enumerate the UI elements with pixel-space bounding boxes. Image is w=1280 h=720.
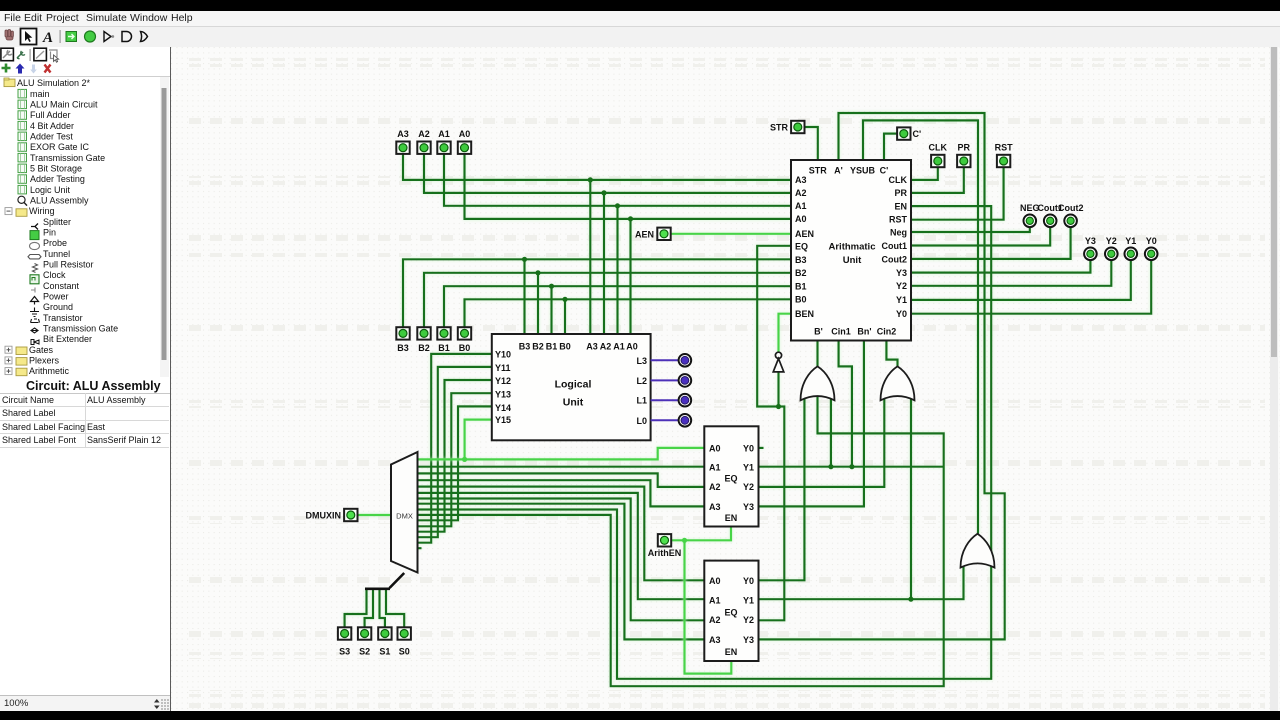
svg-text:A': A' — [834, 166, 843, 176]
pin Y0 (output) — [1145, 236, 1158, 260]
svg-text:YSUB: YSUB — [850, 166, 876, 176]
wire ArithEN branch to box2 EN (high) — [685, 540, 732, 673]
wire B3 branch down to Logical Unit — [523, 259, 525, 334]
pin NEG (output) — [1020, 203, 1040, 227]
svg-text:B2: B2 — [795, 268, 807, 278]
node A3/LU junction — [588, 177, 593, 182]
svg-text:B2: B2 — [418, 343, 430, 353]
svg-text:EN: EN — [725, 513, 738, 523]
wire Y0 row to pin — [911, 260, 1151, 313]
node ArithEN junction (high) — [682, 538, 687, 543]
svg-text:Y2: Y2 — [896, 281, 907, 291]
wire A3 pin to unit — [403, 154, 791, 180]
svg-text:Y1: Y1 — [1125, 236, 1136, 246]
pin ArithEN — [648, 534, 682, 558]
wire splitter leg S3 — [345, 589, 367, 627]
hand tool — [5, 30, 13, 41]
svg-text:Y13: Y13 — [495, 390, 511, 400]
svg-text:Y2: Y2 — [743, 615, 754, 625]
svg-text:Power: Power — [43, 292, 69, 302]
svg-text:A2: A2 — [709, 615, 721, 625]
top black bar — [0, 0, 1280, 11]
toolbar row 1 — [0, 26, 1280, 49]
wire G1 middle input net to DMX out9 via bottom run — [418, 394, 944, 686]
svg-text:Y3: Y3 — [1085, 236, 1096, 246]
select arrow (active, boxed) — [21, 29, 37, 45]
node B1/LU junction — [549, 284, 554, 289]
wire G2 right input to box2 Y1 row — [910, 398, 912, 600]
svg-text:4 Bit Adder: 4 Bit Adder — [30, 121, 74, 131]
status bar — [0, 695, 170, 712]
svg-text:EQ: EQ — [795, 242, 808, 252]
svg-text:Cout1: Cout1 — [882, 241, 908, 251]
toolbar row 2 (left panel) — [0, 47, 170, 62]
node A2/LU junction — [601, 190, 606, 195]
svg-text:ALU Assembly: ALU Assembly — [30, 196, 89, 206]
svg-text:B3: B3 — [397, 343, 409, 353]
pin A1 — [437, 129, 450, 154]
wire A' net: unit top to box2 Y3 row — [759, 113, 1005, 639]
svg-text:main: main — [30, 89, 50, 99]
svg-text:Y2: Y2 — [1106, 236, 1117, 246]
svg-text:A3: A3 — [795, 175, 807, 185]
svg-text:B0: B0 — [459, 343, 471, 353]
svg-text:Tunnel: Tunnel — [43, 249, 70, 259]
wire DMX out12 to LU Y12 — [418, 380, 492, 532]
svg-text:Pull Resistor: Pull Resistor — [43, 260, 94, 270]
op-amp U3 comparator box 1 — [704, 426, 758, 526]
svg-text:Adder Testing: Adder Testing — [30, 174, 85, 184]
pin S3 — [338, 627, 351, 656]
svg-text:PR: PR — [894, 188, 907, 198]
pin B1 — [437, 327, 450, 353]
wire DMX out3 to box1 A3 — [418, 480, 705, 506]
wire AEN pin to unit (high) — [671, 233, 791, 235]
folder + name — [4, 78, 91, 88]
svg-text:A1: A1 — [613, 342, 625, 352]
wire splitter leg S1 — [380, 589, 385, 627]
pin RST — [995, 143, 1014, 168]
svg-text:Transmission Gate: Transmission Gate — [43, 324, 118, 334]
pin Y2 (output) — [1105, 236, 1118, 260]
svg-text:Y1: Y1 — [896, 295, 907, 305]
svg-text:Ground: Ground — [43, 302, 73, 312]
pin PR — [957, 143, 970, 168]
wire A1 branch down to Logical Unit — [616, 206, 618, 334]
pin L1 (output, undefined/blue) — [679, 394, 692, 407]
Wiring folder — [5, 208, 12, 215]
svg-text:Y0: Y0 — [743, 576, 754, 586]
wire DMX out11 to LU Y13 — [418, 393, 492, 526]
svg-text:A1: A1 — [709, 463, 721, 473]
svg-text:Splitter: Splitter — [43, 217, 71, 227]
svg-text:B1: B1 — [795, 282, 807, 292]
svg-text:Y1: Y1 — [743, 596, 754, 606]
svg-text:Y11: Y11 — [495, 363, 511, 373]
svg-text:Logic Unit: Logic Unit — [30, 185, 71, 195]
svg-text:EQ: EQ — [724, 474, 737, 484]
wire EN net: unit EN row down right side to DMX out8 — [418, 206, 992, 679]
svg-text:B2: B2 — [532, 342, 544, 352]
wire B1 branch down to Logical Unit — [550, 286, 552, 334]
node G2 right input on box2 Y1 row — [908, 597, 913, 602]
wire YSUB net: unit top to OR gate G3 output — [863, 120, 978, 533]
svg-text:BEN: BEN — [795, 309, 814, 319]
svg-text:Bn': Bn' — [857, 327, 871, 337]
wire B1 pin to unit — [444, 286, 791, 327]
svg-text:Transistor: Transistor — [43, 313, 83, 323]
svg-text:B0: B0 — [795, 295, 807, 305]
wire DMX out1 to box1 A1 — [418, 466, 705, 468]
svg-text:B3: B3 — [519, 342, 531, 352]
wire G2 left input to box1 Y2 — [759, 398, 885, 487]
Gates / Plexers / Arithmetic — [5, 346, 12, 353]
wire Cout1 row to pin — [911, 227, 1050, 245]
wire PR pin to unit — [911, 167, 964, 193]
node A0/LU junction — [628, 216, 633, 221]
svg-text:EN: EN — [894, 202, 907, 212]
separator — [60, 30, 61, 43]
wire DMX out5 to box2 A1 — [418, 493, 705, 599]
tree scrollbar — [160, 77, 169, 378]
svg-text:Arithmatic: Arithmatic — [829, 242, 876, 253]
svg-text:L0: L0 — [636, 416, 647, 426]
op-amp U4 comparator box 2 — [704, 561, 758, 661]
svg-text:Y12: Y12 — [495, 376, 511, 386]
wire DMUXIN pin to DMX (high) — [358, 514, 391, 516]
wire DMX out7 to box2 A3 — [418, 504, 705, 640]
wire C' pin to unit top — [884, 134, 897, 160]
pin B3 — [396, 327, 409, 353]
wire Cin1 to Y1 row — [839, 341, 852, 467]
svg-text:Unit: Unit — [843, 255, 862, 266]
canvas right scrollbar — [1270, 47, 1278, 711]
wire A2 branch down to Logical Unit — [603, 193, 605, 334]
node B0/LU junction — [562, 297, 567, 302]
wire L2 probe lead — [651, 379, 679, 381]
node B3/LU junction — [522, 257, 527, 262]
wire DMX out6 to box2 A2 — [418, 499, 705, 621]
pin Y3 (output) — [1084, 236, 1097, 260]
wire splitter leg S0 — [386, 589, 404, 627]
svg-text:B0: B0 — [559, 342, 571, 352]
svg-text:Cout2: Cout2 — [1058, 203, 1084, 213]
svg-text:L2: L2 — [636, 376, 647, 386]
svg-text:Y14: Y14 — [495, 403, 511, 413]
node G1 right input on Y1 row — [828, 464, 833, 469]
wire Y2 row to pin — [911, 260, 1111, 286]
wire DMX out0 to box1 A0 (high) — [418, 448, 705, 460]
svg-text:Y3: Y3 — [743, 635, 754, 645]
node B2/LU junction — [535, 270, 540, 275]
wire NOT gate input — [777, 372, 779, 406]
OR gate G1 (to B') — [801, 366, 835, 400]
svg-text:ALU Main Circuit: ALU Main Circuit — [30, 100, 98, 110]
wire EQ net: unit EQ to NOT input and box2 Y2 — [757, 246, 791, 621]
svg-text:C': C' — [913, 129, 922, 139]
svg-text:Full Adder: Full Adder — [30, 110, 71, 120]
svg-text:Plexers: Plexers — [29, 356, 60, 366]
svg-text:A3: A3 — [586, 342, 598, 352]
svg-text:Cin1: Cin1 — [831, 327, 851, 337]
svg-text:Logical: Logical — [555, 379, 592, 391]
wire box1 Y0 stub — [759, 447, 764, 449]
green round pin icon — [85, 31, 96, 42]
wire Bn' to box1 Y3 — [759, 341, 864, 507]
svg-text:S0: S0 — [399, 647, 410, 657]
pin S0 — [398, 627, 411, 656]
wire DMX out14 to LU Y10 — [418, 354, 492, 543]
wire B2 branch down to Logical Unit — [537, 273, 539, 334]
svg-text:Y2: Y2 — [743, 482, 754, 492]
node out0/Y15 junction (high) — [462, 457, 467, 462]
svg-text:Y15: Y15 — [495, 415, 511, 425]
wire A3 branch down to Logical Unit — [589, 180, 591, 334]
wire Y3 row to pin — [911, 260, 1090, 272]
wire G1 left input to box2 Y0 — [759, 398, 805, 581]
wire A1 pin to unit — [444, 154, 791, 206]
wire DMX out15 stub — [418, 547, 422, 549]
svg-text:AEN: AEN — [795, 229, 814, 239]
wire B2 pin to unit — [424, 273, 791, 327]
OR gate G2 (to Cin2) — [881, 366, 915, 400]
wire DMX out4 to box2 A0 — [418, 487, 705, 581]
wire A0 pin to unit — [465, 154, 792, 219]
pin B0 — [458, 327, 471, 353]
svg-text:Y3: Y3 — [896, 268, 907, 278]
svg-text:Y0: Y0 — [1146, 236, 1157, 246]
svg-text:B': B' — [814, 327, 823, 337]
svg-text:S1: S1 — [379, 647, 390, 657]
svg-text:ArithEN: ArithEN — [648, 548, 682, 558]
wire box2 Y1 row to G3 left input — [759, 565, 964, 599]
pin L3 (output, undefined/blue) — [679, 354, 692, 367]
wire L1 probe lead — [651, 399, 679, 401]
svg-text:Y3: Y3 — [743, 502, 754, 512]
wire BEN from NOT output (high) — [779, 314, 792, 353]
pin A2 — [417, 129, 430, 154]
svg-text:CLK: CLK — [929, 143, 948, 153]
svg-text:A0: A0 — [709, 444, 721, 454]
svg-text:A0: A0 — [709, 576, 721, 586]
pin Cout1 (output) — [1037, 203, 1063, 227]
splitter for S select lines — [365, 573, 404, 589]
svg-text:Wiring: Wiring — [29, 206, 55, 216]
wire CLK pin to unit — [911, 167, 938, 180]
svg-text:Y10: Y10 — [495, 350, 511, 360]
wire B3 pin to unit — [403, 259, 791, 327]
op-amp U2 Logical Unit box — [492, 334, 651, 440]
wire DMX out13 to LU Y11 — [418, 367, 492, 537]
svg-text:RST: RST — [889, 215, 908, 225]
wire box1 Y1 row — [759, 466, 944, 468]
wire Cout2 row to pin — [911, 227, 1071, 259]
svg-text:STR: STR — [809, 166, 828, 176]
pin A3 — [396, 129, 409, 154]
svg-text:C': C' — [880, 166, 889, 176]
wire B0 pin to unit — [465, 299, 792, 327]
svg-text:STR: STR — [770, 123, 789, 133]
svg-text:EXOR Gate IC: EXOR Gate IC — [30, 142, 90, 152]
wire ArithEN to box1 EN (high) — [672, 527, 731, 541]
svg-text:A3: A3 — [709, 635, 721, 645]
wire splitter leg S2 — [365, 589, 373, 627]
pin Cout2 (output) — [1058, 203, 1084, 227]
wire A0 branch down to Logical Unit — [629, 219, 631, 334]
svg-text:Y0: Y0 — [896, 309, 907, 319]
svg-text:AEN: AEN — [635, 229, 654, 239]
pin A0 — [458, 129, 471, 154]
wire Neg row to NEG pin — [911, 227, 1030, 232]
svg-text:Adder Test: Adder Test — [30, 132, 73, 142]
svg-text:B1: B1 — [438, 343, 450, 353]
svg-text:Arithmetic: Arithmetic — [29, 366, 70, 376]
op-amp U1 Arithmatic Unit box — [791, 160, 911, 341]
wire L0 probe lead — [651, 419, 679, 421]
svg-text:Probe: Probe — [43, 238, 67, 248]
node EQ/NOT input junction — [776, 404, 781, 409]
svg-text:Cout2: Cout2 — [882, 255, 908, 265]
svg-text:Bit Extender: Bit Extender — [43, 334, 92, 344]
svg-text:CLK: CLK — [889, 175, 908, 185]
wire L3 probe lead — [651, 359, 679, 361]
wire RST pin to unit — [911, 167, 1004, 219]
svg-text:5 Bit Storage: 5 Bit Storage — [30, 164, 82, 174]
svg-text:Transmission Gate: Transmission Gate — [30, 153, 105, 163]
pin Y1 (output) — [1125, 236, 1138, 260]
AND gate icon — [122, 32, 132, 42]
svg-text:A3: A3 — [397, 129, 409, 139]
menu bar — [0, 11, 1280, 26]
wire G1 right input to Y1 row — [830, 398, 832, 467]
wire A2 pin to unit — [424, 154, 791, 193]
svg-text:DMX: DMX — [396, 512, 413, 521]
svg-text:A2: A2 — [600, 342, 612, 352]
pin L0 (output, undefined/blue) — [679, 414, 692, 427]
pin STR — [770, 121, 805, 133]
wiring items: icons at x28-40, text x43 — [31, 224, 38, 230]
toolbar row 3 (left panel) — [0, 62, 170, 76]
svg-text:Neg: Neg — [890, 228, 907, 238]
pin CLK — [929, 143, 948, 168]
wire G2 output to Cin2 — [886, 341, 897, 367]
OR gate icon — [141, 32, 148, 42]
svg-text:Pin: Pin — [43, 228, 56, 238]
wire DMX out2 to box1 A2 — [418, 473, 705, 487]
wire G1 output to B' — [816, 341, 818, 367]
wire DMX out10 to LU Y14 — [418, 406, 492, 520]
svg-text:EN: EN — [725, 647, 738, 657]
svg-text:A2: A2 — [709, 482, 721, 492]
wire Y1 row to pin — [911, 260, 1131, 300]
pin DMUXIN — [306, 509, 358, 521]
faint video ghosting bands — [180, 58, 1265, 708]
svg-text:Y0: Y0 — [743, 444, 754, 454]
svg-text:Cin2: Cin2 — [877, 327, 897, 337]
svg-text:A1: A1 — [709, 596, 721, 606]
svg-text:Gates: Gates — [29, 345, 54, 355]
svg-text:B1: B1 — [546, 342, 558, 352]
svg-text:A: A — [42, 30, 53, 46]
svg-text:Unit: Unit — [563, 397, 584, 409]
demultiplexer DMX — [391, 452, 418, 573]
wire B0 branch down to Logical Unit — [564, 299, 566, 334]
OR gate G3 (to YSUB) — [961, 534, 995, 568]
pin B2 — [417, 327, 430, 353]
svg-text:S2: S2 — [359, 647, 370, 657]
svg-text:DMUXIN: DMUXIN — [306, 511, 342, 521]
svg-text:S3: S3 — [339, 647, 350, 657]
NOT/play icon — [104, 32, 111, 42]
svg-text:Constant: Constant — [43, 281, 80, 291]
svg-text:A2: A2 — [418, 129, 430, 139]
canvas — [171, 47, 1280, 711]
node A1/LU junction — [615, 203, 620, 208]
svg-text:A0: A0 — [626, 342, 638, 352]
svg-text:A0: A0 — [459, 129, 471, 139]
bottom black bar — [0, 711, 1280, 720]
inverter NOT gate — [773, 352, 784, 372]
svg-text:L1: L1 — [636, 396, 647, 406]
svg-text:A1: A1 — [438, 129, 450, 139]
svg-text:Y1: Y1 — [743, 463, 754, 473]
pin S1 — [378, 627, 391, 656]
green square pin icon — [66, 32, 77, 42]
svg-text:B3: B3 — [795, 255, 807, 265]
attribute table — [0, 377, 170, 447]
svg-text:A2: A2 — [795, 188, 807, 198]
svg-text:RST: RST — [995, 143, 1014, 153]
svg-text:A0: A0 — [795, 214, 807, 224]
svg-text:L3: L3 — [636, 356, 647, 366]
svg-text:ALU Simulation 2*: ALU Simulation 2* — [17, 78, 91, 88]
pin S2 — [358, 627, 371, 656]
wire STR pin to unit top — [805, 127, 818, 160]
project tree — [0, 76, 170, 378]
svg-text:A3: A3 — [709, 502, 721, 512]
magnifier for ALU Assembly — [18, 196, 25, 203]
pin L2 (output, undefined/blue) — [679, 374, 692, 387]
pin AEN — [635, 228, 671, 240]
pin C' — [897, 127, 921, 139]
svg-text:A1: A1 — [795, 201, 807, 211]
svg-text:EQ: EQ — [724, 608, 737, 618]
svg-text:PR: PR — [958, 143, 971, 153]
svg-text:Clock: Clock — [43, 270, 66, 280]
node Cin1 on Y1 row — [849, 464, 854, 469]
wire out0 branch to LU Y15 (high) — [465, 420, 492, 460]
